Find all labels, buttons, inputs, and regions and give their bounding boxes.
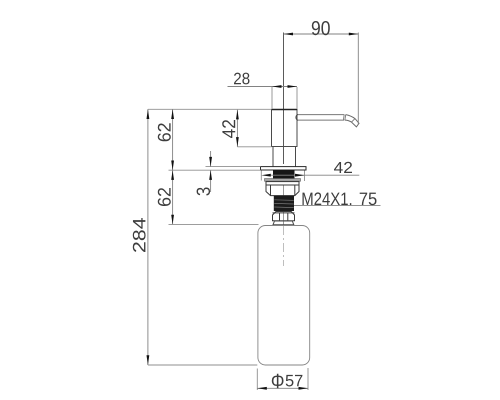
dim 90 right extension (to spout tip)	[357, 33, 359, 125]
dim 284 line	[147, 109, 149, 365]
extension line at pump top	[148, 108, 272, 110]
dim 28 extension lines	[272, 87, 297, 109]
dim 62 lower line	[172, 170, 174, 224]
dim 284 text	[133, 218, 146, 252]
washer (gray band)	[265, 179, 301, 182]
dim 28 text	[234, 73, 250, 85]
dim phi57 arrows	[257, 387, 267, 390]
centerline in bottle (dash-dot)	[283, 226, 285, 266]
dim 62 lower arrows	[171, 170, 174, 180]
bottle collar ring	[273, 221, 294, 225]
dim 42 horizontal extension lines	[261, 171, 304, 182]
extension line at bottle top	[169, 223, 259, 225]
threaded stud	[274, 196, 294, 211]
locknut hex body	[266, 185, 299, 196]
dim 42 vertical text	[222, 120, 235, 138]
dim phi57 extension lines	[257, 368, 308, 390]
dim phi57 line	[257, 387, 308, 389]
label M24X1.75	[303, 192, 352, 205]
dim 3 upper arrow	[210, 151, 212, 167]
extension line at bottle bottom	[148, 364, 257, 366]
mounting flange plate	[261, 167, 307, 170]
extension line at pump body bottom (for dim 42)	[237, 146, 271, 148]
spout tube	[298, 115, 345, 121]
dim 284 arrow bottom	[147, 355, 150, 365]
lower nut	[273, 212, 295, 221]
spout tube left end cap	[296, 115, 298, 121]
dim phi57 text	[272, 374, 284, 388]
dim 42 vertical arrows	[236, 110, 239, 120]
dim 42 horizontal text	[334, 162, 352, 173]
bottle body	[258, 226, 310, 366]
extension line at flange top (for dim 3)	[206, 166, 261, 168]
dim 42 vertical line	[236, 110, 238, 147]
dim 90 line	[284, 33, 359, 35]
dim 90 arrow left	[284, 33, 294, 36]
locknut top face	[266, 182, 299, 185]
spout nozzle outline	[345, 115, 359, 127]
centerline upper (pump vertical axis)	[283, 33, 285, 165]
dim 62 lower text	[158, 188, 171, 206]
centerline lower through nuts	[283, 180, 285, 225]
dim 42 horizontal line	[271, 174, 360, 176]
pump neck	[273, 147, 296, 167]
dim 90 arrow right	[349, 33, 359, 36]
dim 90 text	[312, 21, 330, 35]
dim 28 arrow left	[272, 85, 282, 88]
pump body	[272, 110, 298, 147]
dim 42 horizontal arrows	[261, 174, 271, 177]
dim 28 arrow right	[288, 85, 298, 88]
dim 28 line	[228, 86, 298, 88]
dim 3 lower arrow	[210, 170, 212, 192]
extension line at flange bottom / deck	[169, 169, 261, 171]
dim 62 upper text	[158, 123, 171, 141]
rubber gasket	[273, 170, 295, 179]
dim 62 upper line	[172, 109, 174, 170]
dim 3 text	[197, 188, 211, 196]
leader line M24X1.75	[294, 205, 381, 207]
pump body top edge	[272, 109, 298, 111]
dim 62 upper arrows	[171, 109, 174, 119]
spout bend joints	[343, 115, 355, 123]
dim 284 arrow top	[147, 109, 150, 119]
